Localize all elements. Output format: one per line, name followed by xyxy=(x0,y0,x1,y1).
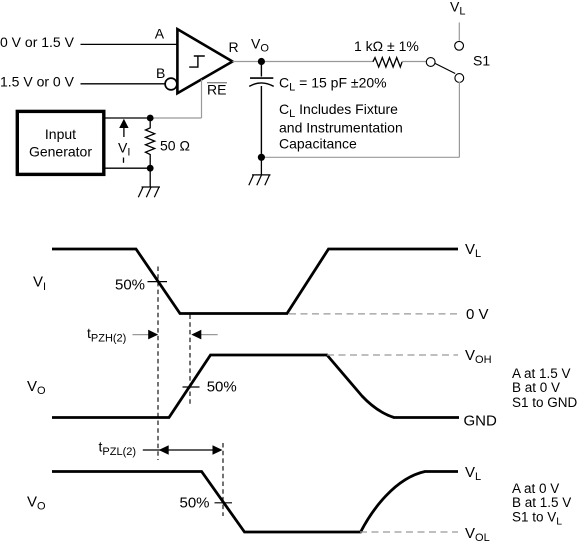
svg-text:B: B xyxy=(156,65,165,81)
ground symbol under 50 ohm xyxy=(138,187,160,197)
svg-text:VO: VO xyxy=(27,378,46,397)
VOH dashed level line xyxy=(327,354,458,356)
wire 50ohm to ground xyxy=(149,168,151,187)
svg-text:VOH: VOH xyxy=(465,347,492,366)
wire bottom rail xyxy=(261,156,459,158)
VI arrow xyxy=(123,126,125,137)
inverter bubble on B input xyxy=(165,78,177,90)
svg-text:Capacitance: Capacitance xyxy=(279,136,357,152)
hysteresis symbol inside U1 xyxy=(189,56,205,67)
capacitor CL top plate xyxy=(250,77,273,79)
switch S1 bottom throw contact xyxy=(455,74,464,83)
tPZH arrow right (pointing left) xyxy=(200,334,218,336)
wire box top output xyxy=(104,117,150,119)
svg-text:B at 0 V: B at 0 V xyxy=(512,380,560,395)
tPZL double arrow xyxy=(143,449,213,451)
svg-text:S1: S1 xyxy=(473,53,490,69)
svg-text:VL: VL xyxy=(465,464,481,483)
junction dot bottom rail xyxy=(258,154,265,161)
svg-text:Input: Input xyxy=(45,126,76,142)
svg-text:VOL: VOL xyxy=(465,525,490,542)
wire rail to ground xyxy=(260,157,262,175)
svg-text:50 Ω: 50 Ω xyxy=(160,138,190,154)
svg-text:50%: 50% xyxy=(180,495,210,512)
svg-text:S1 to VL: S1 to VL xyxy=(512,510,562,528)
svg-text:VL: VL xyxy=(465,241,481,260)
svg-text:A at 0 V: A at 0 V xyxy=(512,481,559,496)
resistor R1 zigzag xyxy=(373,58,402,67)
svg-text:VL: VL xyxy=(450,0,465,18)
resistor 50 ohm zigzag xyxy=(146,118,155,168)
VI waveform trace xyxy=(52,249,458,314)
wire box bottom xyxy=(104,167,150,169)
buffer U1 triangle xyxy=(177,29,232,93)
switch S1 top throw contact xyxy=(455,41,464,50)
VI arrow dashed tail xyxy=(123,158,125,163)
svg-text:VO: VO xyxy=(251,36,269,55)
svg-text:VO: VO xyxy=(27,493,46,512)
svg-text:VI: VI xyxy=(33,273,46,293)
svg-text:and Instrumentation: and Instrumentation xyxy=(279,120,403,136)
svg-text:1.5 V or 0 V: 1.5 V or 0 V xyxy=(0,73,75,89)
svg-text:50%: 50% xyxy=(115,276,145,293)
svg-text:B at 1.5 V: B at 1.5 V xyxy=(512,495,571,510)
wire bottom throw down xyxy=(458,82,460,157)
svg-text:VI: VI xyxy=(118,140,130,159)
wire RE vertical xyxy=(201,80,203,119)
VO bottom waveform trace xyxy=(52,472,458,533)
junction dot bottom of 50 ohm xyxy=(147,165,154,172)
tPZH arrow left (pointing right) xyxy=(133,334,150,336)
switch S1 pole contact xyxy=(426,58,435,67)
ground symbol under capacitor xyxy=(249,175,271,185)
wire capacitor to bottom rail xyxy=(260,86,262,157)
dashed cursor line 2 xyxy=(189,315,191,407)
svg-text:A at 1.5 V: A at 1.5 V xyxy=(512,366,571,381)
wire VO node down to capacitor xyxy=(260,62,262,77)
50% tick on VI falling edge xyxy=(148,281,168,283)
svg-text:CL Includes Fixture: CL Includes Fixture xyxy=(279,101,398,120)
wire node to RE xyxy=(150,117,201,119)
50% tick on VO falling edge xyxy=(215,502,233,504)
svg-text:0 V or 1.5 V: 0 V or 1.5 V xyxy=(0,34,75,50)
svg-text:tPZH(2): tPZH(2) xyxy=(87,325,126,345)
dashed cursor line 1 xyxy=(157,267,159,461)
svg-text:CL = 15 pF ±20%: CL = 15 pF ±20% xyxy=(279,75,387,94)
switch S1 blade xyxy=(435,63,455,73)
50% tick on VO rising edge xyxy=(183,386,200,388)
wire VL stub xyxy=(458,23,460,41)
dashed cursor line 3 xyxy=(222,443,224,516)
svg-text:tPZL(2): tPZL(2) xyxy=(99,439,137,459)
wire resistor to switch pole xyxy=(402,61,426,63)
svg-text:RE: RE xyxy=(207,81,226,97)
wire A input xyxy=(81,43,178,45)
0 V dashed level line xyxy=(289,313,458,315)
svg-text:A: A xyxy=(155,25,165,41)
capacitor CL curved plate xyxy=(249,83,274,87)
VOL dashed level line xyxy=(360,531,458,533)
svg-text:1 kΩ ± 1%: 1 kΩ ± 1% xyxy=(354,38,419,54)
input generator box xyxy=(17,111,104,174)
svg-text:50%: 50% xyxy=(207,378,237,395)
svg-text:Generator: Generator xyxy=(29,144,92,160)
svg-text:GND: GND xyxy=(464,413,498,430)
junction dot top of 50 ohm xyxy=(147,115,154,122)
svg-text:0 V: 0 V xyxy=(466,306,489,323)
svg-text:S1 to GND: S1 to GND xyxy=(512,395,578,410)
svg-text:R: R xyxy=(229,39,239,55)
wire B input xyxy=(81,83,166,85)
VO middle waveform trace xyxy=(52,355,459,418)
junction dot VO xyxy=(258,58,265,65)
wire output R to resistor xyxy=(233,61,373,63)
